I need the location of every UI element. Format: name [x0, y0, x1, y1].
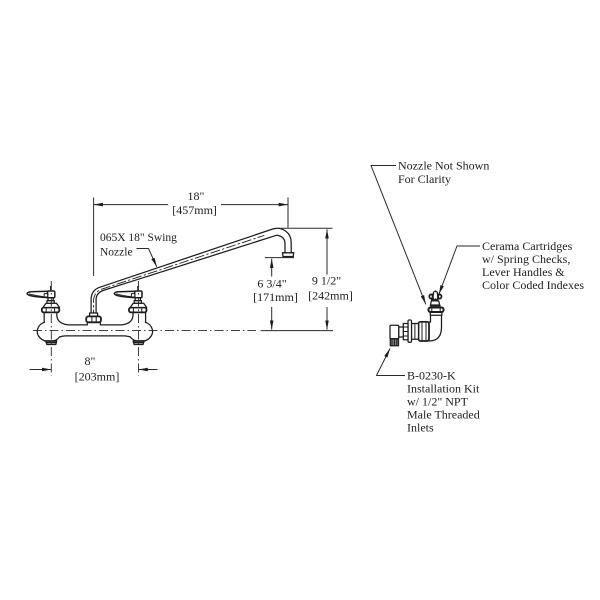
dim 18 line left w arrow [94, 204, 168, 206]
left valve bonnet [43, 303, 60, 307]
svg-text:065X 18" Swing: 065X 18" Swing [100, 232, 177, 244]
leader line: nozzle not shown [371, 166, 426, 305]
svg-text:Lever Handles &: Lever Handles & [482, 265, 565, 279]
dim 8 line left w arrow [30, 369, 44, 371]
dim 18 line right w arrow [221, 204, 288, 206]
side view: cap dome w ears [429, 294, 432, 298]
left handle screw [50, 288, 52, 291]
side view: nut behind flange [412, 324, 419, 340]
left valve hex nut [42, 308, 60, 313]
right valve bonnet [130, 303, 147, 307]
svg-text:Installation Kit: Installation Kit [407, 382, 480, 396]
svg-text:For Clarity: For Clarity [398, 172, 451, 186]
left handle hub [48, 291, 55, 298]
dim 18 extension left [93, 198, 95, 277]
side view: locknut [403, 324, 408, 340]
wall boss ellipse arc left [37, 322, 59, 341]
body centerline [33, 329, 256, 331]
side view: nipple [399, 327, 404, 337]
svg-text:[242mm]: [242mm] [308, 289, 353, 303]
svg-text:Cerama Cartridges: Cerama Cartridges [482, 239, 573, 253]
svg-text:Color Coded Indexes: Color Coded Indexes [482, 278, 584, 292]
leader line: cerama cartridges [439, 246, 480, 294]
left handle blade [27, 291, 47, 297]
side view: coupling hex nut [419, 322, 430, 341]
foot right [133, 341, 144, 345]
svg-text:w/ Spring Checks,: w/ Spring Checks, [482, 252, 570, 266]
svg-text:[203mm]: [203mm] [75, 370, 120, 384]
right valve stem [134, 301, 141, 304]
svg-text:Nozzle: Nozzle [100, 247, 133, 259]
center swivel hex nut [86, 316, 101, 322]
svg-text:8": 8" [85, 354, 96, 368]
svg-text:18": 18" [188, 189, 205, 203]
svg-text:[171mm]: [171mm] [253, 290, 298, 304]
swing nozzle tube [91, 228, 294, 314]
leader line: B-0230-K [377, 349, 406, 376]
side view: tube collar band [430, 312, 442, 315]
valve centerline left [50, 281, 52, 376]
left valve stem [47, 301, 54, 304]
side view: collar band dark [430, 305, 441, 307]
leader 065X swing nozzle [137, 249, 157, 267]
valve centerline right [138, 281, 140, 376]
dim 6.75 extension top [265, 257, 294, 259]
svg-text:w/ 1/2" NPT: w/ 1/2" NPT [407, 395, 469, 409]
svg-text:Inlets: Inlets [407, 421, 434, 435]
dim 8 line right w arrow [147, 369, 158, 371]
side view: inlet block [390, 325, 399, 338]
svg-text:Nozzle Not Shown: Nozzle Not Shown [398, 159, 489, 173]
dim 9.5 extension top [281, 227, 333, 229]
right handle blade [114, 291, 134, 297]
side view: threaded inlet [390, 339, 398, 346]
centerline extension solid [261, 330, 334, 332]
side view: hex band top [428, 308, 443, 313]
center swivel collar [90, 313, 98, 316]
right handle hub [135, 291, 142, 298]
faucet body bottom edge [60, 336, 130, 337]
wall boss ellipse arc right [130, 322, 152, 341]
side view: cartridge stem band [432, 299, 439, 301]
faucet body fill [44, 312, 145, 336]
svg-text:B-0230-K: B-0230-K [407, 369, 456, 383]
nozzle centerline [94, 236, 264, 320]
side view: wall flange disc [408, 320, 412, 342]
right valve hex nut [129, 308, 147, 313]
svg-text:Male Threaded: Male Threaded [407, 408, 480, 422]
side view: elbow body [429, 312, 442, 342]
right handle screw [137, 288, 139, 291]
svg-text:6 3/4": 6 3/4" [257, 277, 286, 291]
foot left [46, 341, 57, 345]
dim 9.5 line [326, 229, 328, 274]
dim 18 extension right [287, 198, 289, 228]
faucet body outline [44, 312, 145, 325]
side view: bonnet trapezoid [430, 301, 439, 305]
svg-text:9 1/2": 9 1/2" [312, 274, 341, 288]
dim 6.75 line [271, 259, 273, 277]
svg-text:[457mm]: [457mm] [172, 203, 217, 217]
